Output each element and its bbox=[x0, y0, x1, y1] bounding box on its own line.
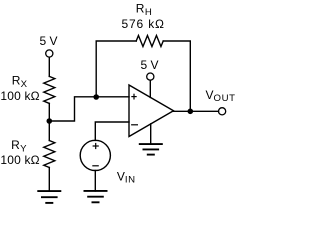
wire 5V to op-amp top bbox=[149, 80, 151, 97]
wire output bbox=[174, 110, 219, 112]
resistor RX bbox=[44, 76, 55, 103]
ground VIN bbox=[84, 191, 108, 202]
svg-text:5 V: 5 V bbox=[40, 34, 58, 48]
wire node A to op-amp + input bbox=[49, 97, 129, 121]
wire RX to RY bbox=[48, 103, 50, 140]
wire RY to ground bbox=[48, 168, 50, 192]
junction node A dot bbox=[47, 118, 53, 124]
ground op-amp bbox=[139, 144, 163, 155]
op-amp U1 bbox=[129, 85, 174, 137]
VIN polarity + bbox=[93, 143, 99, 149]
junction dot feedback / + input bbox=[93, 94, 99, 100]
resistor RH bbox=[136, 36, 163, 47]
svg-text:576 kΩ: 576 kΩ bbox=[122, 17, 165, 31]
wire VIN to ground bbox=[94, 171, 96, 192]
wire 5V left to RX bbox=[48, 57, 50, 76]
VIN polarity - bbox=[92, 165, 99, 167]
ground left bbox=[37, 191, 61, 203]
terminal VOUT bbox=[219, 108, 226, 115]
op-amp inverting input marker - bbox=[131, 124, 138, 126]
wire feedback left vertical and top-left segment bbox=[96, 41, 136, 97]
supply terminal 5V left bbox=[46, 50, 53, 57]
svg-text:100 kΩ: 100 kΩ bbox=[0, 153, 39, 167]
resistor RY bbox=[44, 141, 55, 168]
wire op-amp - input to VIN bbox=[95, 122, 129, 140]
junction dot output / feedback bbox=[188, 109, 194, 115]
supply terminal 5V op-amp bbox=[147, 73, 154, 80]
op-amp noninverting input marker + bbox=[131, 94, 136, 100]
source VIN circle bbox=[80, 140, 110, 170]
wire op-amp bottom to ground bbox=[150, 124, 152, 144]
svg-text:100 kΩ: 100 kΩ bbox=[0, 89, 39, 103]
svg-text:5 V: 5 V bbox=[141, 58, 159, 72]
wire feedback top-right segment and right vertical bbox=[163, 41, 190, 111]
